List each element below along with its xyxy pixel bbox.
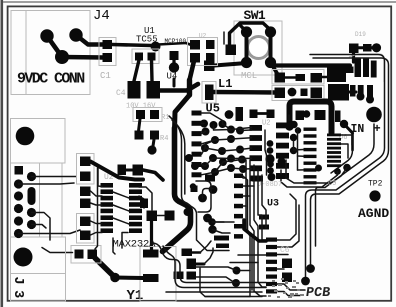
wire bl2 — [196, 277, 236, 283]
transistor pads Q1 a — [75, 250, 84, 259]
wire R3 to R4 — [139, 119, 141, 131]
pad block A1 — [190, 40, 200, 50]
via hook3 — [208, 218, 216, 226]
wire J3 p3 right — [19, 183, 75, 184]
crystal Y1 pad top — [143, 250, 159, 258]
resistor R4 pad left — [135, 131, 144, 140]
wire SW1 left pads — [245, 32, 249, 63]
pad U4 — [169, 62, 179, 72]
wire bus diag to x174 — [175, 95, 190, 130]
wire vert feed left — [95, 168, 98, 249]
connector DB9 pad column — [192, 111, 202, 178]
wire fan f3 — [202, 132, 206, 134]
wire bundle mid2 — [281, 170, 338, 187]
wire fan f4 — [214, 125, 252, 130]
svg-text:U4: U4 — [167, 72, 178, 82]
wire u3 left h1 — [238, 254, 266, 256]
wire striping s4 — [258, 170, 266, 240]
wire u3 right fan6 — [277, 292, 300, 296]
svg-text:R4: R4 — [160, 135, 168, 143]
net bus right edge line 2 — [311, 58, 389, 269]
wire J3 p8 — [32, 225, 47, 229]
pad R5 square — [204, 61, 215, 72]
wire Y1 curve right2 — [163, 246, 266, 288]
via fan 3 — [219, 120, 227, 128]
ic U2 pad column right — [129, 183, 142, 233]
wire SW1 top bracket — [230, 23, 271, 47]
wire block to bus — [190, 61, 195, 80]
wire bl1 — [196, 267, 237, 271]
silkscreen U1 outline — [132, 49, 159, 64]
via chain center U5 — [267, 140, 275, 180]
via u3 top1 — [265, 154, 274, 163]
wire C7 row — [257, 112, 268, 115]
svg-text:9VDC CONN: 9VDC CONN — [17, 71, 85, 88]
wire U1 down to C4 — [134, 60, 139, 81]
net bus mid line 3 — [331, 150, 353, 173]
wire u6 vertical v1 — [288, 115, 290, 120]
pad row-B-3 — [311, 88, 323, 99]
wire fan f1 — [202, 113, 223, 124]
wire striping s8 — [265, 130, 267, 175]
silkscreen lower box — [11, 237, 66, 274]
wire SW1-4 down — [271, 63, 278, 75]
wire fan f2 — [202, 122, 205, 124]
resistor col R7 pad a — [80, 187, 91, 197]
transistor pads Q1 b — [88, 250, 98, 260]
wire u3 left fan1 — [243, 185, 254, 187]
silkscreen divider line — [61, 163, 63, 237]
wire row-A — [285, 76, 297, 79]
regulator U1 pad 3 — [148, 53, 156, 61]
capacitor C2 pad a — [118, 165, 127, 176]
pad D19 round — [372, 43, 381, 52]
connector J3 pad1 square — [15, 166, 24, 175]
wire row-B to terminal — [349, 91, 356, 94]
capacitor C7 pad — [236, 107, 244, 121]
via Y1 junction — [110, 273, 120, 283]
via below R4 — [147, 145, 156, 154]
resistor col R7 pad b — [80, 199, 91, 209]
mounting hole H2 — [14, 248, 33, 267]
wire D9 to terminal — [345, 67, 354, 74]
wire u6 vertical v4 — [298, 169, 304, 171]
silkscreen SW1 button ring — [248, 37, 270, 59]
via fan 4 — [202, 128, 210, 136]
svg-text:U2: U2 — [262, 120, 270, 128]
silkscreen R8 — [77, 214, 95, 244]
wire u3 right fan3 — [277, 254, 288, 256]
resistor R3 pad partner — [150, 110, 159, 119]
connector J3 pad8 — [27, 220, 36, 229]
wire main bus parallel thin b — [172, 120, 185, 194]
diode D19 pad right — [363, 44, 372, 52]
connector J3 pad6 — [27, 208, 36, 217]
capacitor C11 pad b — [165, 211, 175, 221]
via fan 7 — [218, 147, 226, 155]
connector J3 pad7 — [14, 216, 23, 225]
silkscreen row B — [272, 86, 324, 101]
svg-text:J4: J4 — [93, 8, 110, 24]
svg-text:U3: U3 — [267, 199, 279, 210]
pad row-B-2 — [301, 89, 308, 97]
wire striping s5 — [262, 175, 266, 228]
wire striping s3 — [254, 165, 266, 287]
capacitor C2 pad b — [133, 165, 144, 176]
pad C5 square — [226, 45, 237, 56]
via fan 5 — [211, 136, 219, 144]
net bus diag line 4 — [316, 124, 375, 246]
pad SW1-2 — [265, 26, 276, 37]
wire Y1 junction diag — [95, 258, 115, 278]
ic U3 pad column right — [266, 238, 277, 294]
terminal J2 pad 1b — [350, 85, 356, 97]
wire u3 left fan2 — [243, 195, 250, 197]
pads u5 extra row2 — [259, 215, 269, 220]
svg-text:MCL: MCL — [241, 71, 257, 81]
via fan 8 — [209, 154, 217, 162]
wire row-A-3 to D9 — [322, 76, 328, 79]
net bus right edge line 1 — [306, 55, 385, 283]
via fan 18 — [227, 164, 235, 172]
wire main bus parallel thin a — [169, 116, 229, 251]
wire R4 down — [153, 140, 154, 147]
wire scatter2 — [213, 230, 231, 234]
silkscreen Y1 outline — [140, 247, 176, 302]
via u3 top2 — [278, 158, 286, 166]
via mid2 — [191, 162, 199, 170]
wire MCP100 down — [172, 60, 175, 66]
via x344 — [340, 120, 348, 128]
via J2-2b — [357, 93, 365, 101]
wire C2 link — [126, 169, 133, 172]
scan edge left — [1, 0, 4, 307]
wire U2 inner diag2 — [113, 205, 129, 211]
wire SW1-4 to terminal — [272, 64, 351, 66]
wire fan f9 — [202, 158, 252, 166]
via bus end 2 — [306, 264, 315, 273]
wire D19 down — [352, 53, 355, 62]
wire bottom long1 — [200, 268, 250, 297]
wire striping s6 — [243, 177, 246, 179]
via bus end 1 — [301, 277, 310, 286]
silkscreen L1 box — [202, 82, 216, 104]
capacitor C11 pad a — [147, 211, 158, 222]
squares bottom-left of U3 pad1 — [187, 259, 197, 270]
wire fan f7 — [202, 140, 216, 154]
silkscreen R6 — [77, 154, 95, 185]
crystal Y1 pad bottom — [143, 274, 159, 282]
wire bus vertical x188 — [187, 80, 192, 95]
ic U6 pad column left — [304, 128, 317, 185]
via C7 — [225, 110, 234, 119]
wire Y1 junction to pad — [115, 276, 143, 281]
wire J4-2 to C1 — [76, 35, 104, 45]
wire U2 right col down2 — [139, 196, 144, 208]
connector J3 slot — [28, 187, 36, 205]
wire C4 to bus — [160, 84, 198, 91]
terminal J2 pad 3b — [367, 85, 373, 99]
ic U5 pad column left — [250, 125, 263, 181]
wire x344 to IN — [344, 124, 353, 133]
wire bundle mid1 — [286, 160, 347, 183]
wire u6 h1 — [341, 135, 352, 145]
wire fan f11 — [215, 168, 252, 172]
via stub end — [285, 122, 293, 130]
capacitor C4 pad left — [128, 81, 141, 99]
wire fan f5 — [240, 129, 252, 132]
wire fan f6 — [202, 138, 252, 144]
pad row-B-1 — [275, 88, 286, 99]
pad block A2 — [206, 40, 215, 49]
via scatter m2 — [208, 225, 216, 233]
via hook1 — [190, 183, 196, 189]
scan edge top — [3, 1, 396, 3]
via fan 14 — [227, 135, 235, 143]
via bl3 — [232, 279, 240, 287]
svg-text:TP2: TP2 — [368, 180, 383, 189]
capacitor C4 pad right — [147, 81, 161, 99]
wire diode to C11 diag — [91, 162, 144, 180]
wire C1 to U1 — [112, 45, 151, 46]
pads u5 extra row3 — [259, 225, 269, 230]
wire scatter1 — [208, 218, 235, 222]
via bl2 — [233, 267, 241, 275]
svg-text:D-08D7: D-08D7 — [257, 181, 282, 189]
regulator U1 pad 2 — [135, 53, 143, 61]
wire u6 vertical v3 — [298, 155, 304, 157]
silkscreen J4 connector outline — [11, 11, 90, 95]
silkscreen row A — [272, 70, 324, 85]
via fan 16 — [227, 155, 235, 163]
wire striping s1 — [246, 160, 250, 296]
silkscreen block left of SW1 — [188, 38, 218, 66]
via u6-3 — [343, 164, 351, 172]
via fan 13 — [236, 127, 244, 135]
wire C11 down — [150, 221, 153, 250]
pad J4-1 — [40, 29, 53, 42]
pad row x313 — [315, 110, 326, 120]
pad crystal bar — [191, 186, 198, 193]
capacitor C10 pad b — [282, 273, 292, 283]
wire U2 bottom2 — [122, 233, 128, 249]
ic U2 pad column left — [101, 183, 114, 233]
pad u3 top bar — [276, 175, 286, 180]
silkscreen terminal outline — [349, 54, 384, 82]
wire U1 to MCP100 — [158, 43, 190, 45]
wire Y1 curve right1 — [152, 243, 266, 283]
pad C7b — [250, 110, 258, 119]
resistor R4 pad right — [150, 131, 159, 140]
wire u3 right fan4 — [277, 268, 284, 270]
via fan 17 — [238, 156, 246, 164]
inductor L1 pad — [205, 85, 214, 101]
wire L1 to row B — [214, 90, 277, 95]
terminal J2 pad 1a — [355, 59, 362, 78]
connector J3 pad9 — [14, 229, 23, 238]
svg-text:U2: U2 — [199, 33, 207, 40]
silkscreen Q1 outline — [71, 246, 101, 264]
ic U3 pad column left — [234, 174, 243, 239]
svg-text:C9: C9 — [328, 180, 336, 188]
wire C2 right diag — [143, 170, 163, 180]
capacitor C1 pad top — [103, 40, 113, 49]
silkscreen C1 outline — [99, 38, 116, 66]
pad row-B big — [328, 84, 349, 101]
wire R6 to U2 — [91, 161, 103, 187]
wire main bus vertical — [163, 128, 191, 252]
via mid1 — [185, 154, 193, 162]
wire IN stub — [351, 133, 354, 150]
svg-text:C1: C1 — [100, 71, 111, 81]
pad C8 — [267, 110, 275, 119]
wire bl3 — [241, 270, 251, 272]
via scatter m1 — [203, 214, 212, 223]
wire U2 bottom1 — [113, 238, 115, 254]
pad row x296 — [296, 111, 305, 121]
wire u3 right fan1 — [277, 194, 296, 240]
via fan 12 — [227, 126, 235, 134]
wire U4 down — [173, 79, 176, 86]
pad mid square — [205, 175, 215, 182]
watermark speckle — [268, 278, 304, 298]
via fan 19 — [239, 165, 247, 173]
connector J3 pad4 — [14, 191, 23, 200]
wire U2 right col down1 — [139, 187, 152, 210]
pads u5 extra row1 — [252, 176, 263, 182]
wire R8b to U2 — [91, 233, 103, 236]
wire crystal hook outer — [196, 181, 211, 212]
wire fan f12 — [223, 124, 232, 130]
silkscreen J3 label box — [11, 274, 66, 302]
pad U1-1 — [151, 42, 161, 52]
resistor col R8 pad a — [80, 217, 91, 227]
wire u3 right fan2 — [277, 205, 299, 247]
pad MCP100 square — [170, 51, 179, 60]
wire SW1 right pads — [269, 32, 273, 63]
wire fan f8 — [205, 148, 252, 151]
resistor R3 pad top — [136, 110, 145, 119]
via u3 top3 — [268, 173, 276, 181]
ic U3 top pads row — [214, 236, 229, 249]
via fan 2 — [210, 121, 218, 129]
wire U1 pin3 down — [150, 60, 154, 81]
wire D19 — [358, 46, 373, 49]
wire bottom thin y292 — [166, 291, 262, 293]
via fan 9 — [219, 158, 227, 166]
svg-text:D19: D19 — [355, 31, 366, 38]
wire R7 to U2 — [91, 191, 103, 196]
wire J3box to Q1 — [42, 248, 73, 253]
resistor col R6 pad b — [80, 172, 91, 182]
pad bar x335 — [335, 111, 341, 123]
pad row-A-3 — [311, 73, 323, 83]
wire hook3 — [212, 221, 224, 223]
via fan 10 — [201, 162, 209, 170]
svg-text:PCB: PCB — [305, 286, 331, 301]
svg-text:C6: C6 — [280, 246, 290, 255]
capacitor C10 pad a — [282, 259, 292, 269]
wire C11 link — [157, 215, 165, 217]
terminal J2 pad 2b — [358, 85, 364, 97]
squares bottom-left of U3 pad2 — [187, 272, 197, 280]
wire crystal hook inner — [203, 189, 214, 199]
silkscreen J4 inner line — [25, 11, 27, 95]
wire u3 left fan3 — [243, 205, 246, 207]
silkscreen R3 outline — [133, 108, 162, 122]
wire R5 to SW1-3 — [215, 63, 247, 66]
via fan 1 — [200, 120, 208, 128]
wire J3 p2 right — [32, 176, 77, 178]
svg-text:AGND: AGND — [358, 206, 389, 221]
wire striping s7 — [243, 176, 252, 290]
via row x306 — [303, 110, 311, 118]
via fan 6 — [201, 144, 209, 152]
via right of colA — [315, 165, 322, 172]
via fan 11 — [211, 168, 219, 176]
pad row-A-2 — [296, 74, 306, 81]
capacitor C1 pad bottom — [103, 53, 113, 62]
pad SW1-1 — [241, 26, 252, 37]
wire J3 p9 right — [19, 230, 81, 234]
svg-text:10V 16V: 10V 16V — [126, 103, 156, 111]
wire J4-1 to J4-3 — [47, 36, 62, 57]
via u6-4 — [334, 168, 341, 175]
ic U5 bottom pads — [251, 155, 253, 157]
wire striping s2 — [250, 160, 266, 296]
via hook2 — [184, 208, 192, 216]
testpoint TP1 pad — [366, 107, 382, 123]
wire J4-3 to C1 — [62, 55, 104, 60]
pad SW1-3 — [241, 57, 252, 68]
ic U5 pad column right — [276, 123, 289, 179]
pad D9 big — [327, 67, 346, 83]
connector J3 pad2 — [27, 172, 36, 181]
wire thick diag to U3 col — [244, 220, 266, 241]
diode D19 pad left — [349, 44, 359, 54]
wire u3 right fan5 — [277, 284, 305, 290]
wire R8 to U2 — [91, 221, 103, 224]
crystal pads right — [198, 194, 207, 203]
terminal J2 pad 3a — [371, 61, 377, 78]
wire u3 left h2 — [230, 262, 258, 264]
wire fan f10 — [202, 160, 243, 175]
svg-text:MAX232A: MAX232A — [113, 239, 157, 251]
resistor col R6 pad a — [80, 157, 91, 167]
via row-B — [288, 88, 297, 97]
pad block A3 — [190, 53, 200, 63]
via J2-3b — [366, 96, 374, 104]
pad J4-2 — [69, 28, 82, 41]
resistor col R8 pad b — [80, 231, 91, 241]
mounting hole H1 — [16, 127, 35, 146]
crystal via2 — [209, 185, 218, 194]
wire C5 to SW1 — [223, 32, 225, 44]
wire U2 inner diag1 — [113, 192, 129, 198]
silkscreen mount hole box — [11, 119, 66, 164]
pad block A4 — [206, 53, 215, 62]
silkscreen J3 outline — [11, 163, 40, 237]
silkscreen SW1 outline — [234, 21, 282, 75]
via fan 15 — [236, 146, 244, 154]
pad J4-3 — [55, 50, 69, 64]
wire stub x289 — [290, 102, 332, 134]
via col right of U5 — [290, 121, 301, 154]
pad row-A-1 — [275, 73, 286, 83]
svg-text:J3: J3 — [10, 277, 25, 304]
ic U6 pad column right — [327, 134, 341, 168]
wire R7b to U2 — [91, 203, 103, 205]
